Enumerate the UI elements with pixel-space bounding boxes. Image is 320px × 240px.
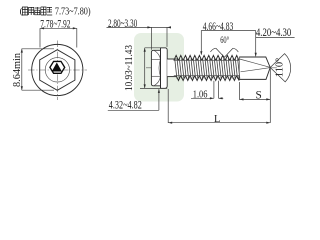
- washer flange: [161, 48, 168, 89]
- thread flank hatch: [175, 59, 240, 79]
- dimension 7.78~7.92: [40, 18, 77, 47]
- svg-text:60°: 60°: [220, 35, 229, 45]
- 110 degree fan: [270, 54, 290, 82]
- green highlight block behind head side view: [134, 33, 184, 102]
- dimension 8.64min: [12, 49, 54, 91]
- washer circle: [32, 44, 83, 95]
- drill flute line 1: [240, 59, 271, 67]
- washer face line: [160, 48, 162, 89]
- dimension 2.80~3.30: [107, 18, 172, 50]
- dimension S: [240, 68, 271, 123]
- shank: [167, 59, 176, 77]
- screw axis centerline: [146, 67, 277, 69]
- note (電鍍前對邊7.73~7.80): [20, 6, 91, 17]
- pilot section: [239, 57, 270, 79]
- svg-text:10.93~11.43: 10.93~11.43: [124, 45, 135, 91]
- svg-text:110°: 110°: [274, 58, 286, 78]
- facet lines: [151, 59, 160, 61]
- svg-text:4.32~4.82: 4.32~4.82: [109, 100, 142, 112]
- thread body white under-fill: [174, 57, 270, 79]
- dimension 10.93~11.43: [124, 45, 167, 91]
- 60 degree thread angle callout: [210, 35, 238, 57]
- centerline vertical: [56, 41, 58, 101]
- dimension 4.32~4.82 leader: [108, 89, 160, 112]
- hexagon head outline front: [40, 50, 75, 91]
- thread teeth bottom: [176, 76, 239, 81]
- drive triangle: [52, 63, 62, 72]
- svg-text:4.20~4.30: 4.20~4.30: [256, 27, 292, 39]
- centerline horizontal: [28, 69, 87, 71]
- dimension 1.06 pitch: [191, 81, 223, 101]
- hex head side: white fill: [151, 50, 160, 86]
- thread teeth top: [174, 55, 239, 60]
- svg-text:4.66~4.83: 4.66~4.83: [203, 21, 234, 33]
- svg-text:L: L: [214, 114, 220, 125]
- drive recess hexagon: [50, 61, 65, 73]
- svg-text:7.73~7.80): 7.73~7.80): [55, 6, 91, 17]
- dimension 4.20~4.30 leader: [255, 27, 295, 57]
- dimension 4.66~4.83: [200, 21, 256, 55]
- drill flute line 2: [241, 68, 270, 72]
- root lines: [174, 59, 239, 61]
- svg-text:2.80~3.30: 2.80~3.30: [108, 18, 138, 30]
- inner circle (inscribed): [45, 58, 69, 82]
- dimension L: [168, 89, 270, 125]
